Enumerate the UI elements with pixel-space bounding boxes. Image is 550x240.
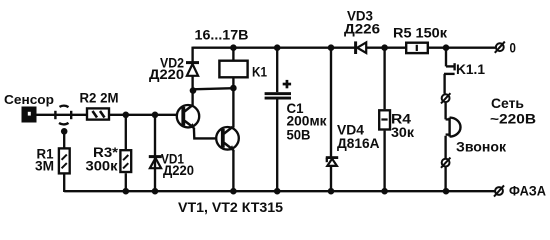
resistor R2 xyxy=(87,108,109,119)
node junction below shield xyxy=(61,128,68,135)
svg-text:R2 2M: R2 2M xyxy=(80,91,119,106)
diode VD2 xyxy=(186,63,199,76)
wire VT2 emitter down xyxy=(232,150,234,192)
wire to bell xyxy=(444,103,446,120)
wire R4 top xyxy=(383,48,385,109)
zener VD4 xyxy=(326,158,338,166)
wire VD4 lower xyxy=(330,166,332,192)
terminal 0 xyxy=(495,42,505,53)
svg-text:Д816А: Д816А xyxy=(337,136,380,151)
svg-text:Сенсор: Сенсор xyxy=(4,92,54,107)
junction C1 top xyxy=(274,44,281,51)
wire R2 to VT1 base xyxy=(110,114,176,116)
diode VD1 xyxy=(149,157,162,169)
capacitor C1 xyxy=(265,92,291,99)
svg-text:Звонок: Звонок xyxy=(456,140,506,155)
bottom rail xyxy=(64,190,495,192)
svg-text:50В: 50В xyxy=(287,128,311,143)
svg-text:ФАЗА: ФАЗА xyxy=(509,183,546,198)
svg-text:K1: K1 xyxy=(252,65,267,80)
svg-text:Д226: Д226 xyxy=(344,22,380,37)
wire R3 to bottom rail xyxy=(125,173,127,192)
wire VT1 emitter to VT2 base xyxy=(194,128,216,139)
resistor R4 xyxy=(379,110,390,129)
sensor plate E1 xyxy=(22,107,37,123)
svg-text:3М: 3М xyxy=(35,159,54,174)
resistor R3 xyxy=(120,150,131,172)
wire R4 bottom xyxy=(383,131,385,192)
resistor R5 xyxy=(406,43,428,53)
label + xyxy=(283,80,291,88)
junction R3 bottom xyxy=(123,188,130,195)
junction R4 bottom xyxy=(381,188,388,195)
bell (Звонок) xyxy=(446,118,461,137)
junction R4 top xyxy=(381,44,388,51)
svg-text:0: 0 xyxy=(510,39,517,55)
junction bell bottom xyxy=(443,188,450,195)
terminal circle upper xyxy=(441,93,450,103)
wire R1 to bottom rail xyxy=(63,174,65,192)
top rail xyxy=(193,47,496,49)
diode VD3 xyxy=(356,41,367,54)
svg-text:30к: 30к xyxy=(391,125,414,140)
wire VD4 branch upper xyxy=(330,48,332,157)
junction R3 top xyxy=(123,112,130,119)
junction VD1 bottom xyxy=(152,188,159,195)
terminal circle lower xyxy=(441,158,450,168)
junction K1 top xyxy=(230,44,237,51)
junction VD4 bottom xyxy=(328,188,335,195)
wire node to R1 xyxy=(63,131,65,148)
junction K1.1 top xyxy=(443,44,450,51)
svg-text:~220В: ~220В xyxy=(490,111,536,126)
svg-text:R5 150к: R5 150к xyxy=(393,25,447,40)
transistor VT2 xyxy=(216,127,239,151)
wire to R3 xyxy=(125,115,127,149)
junction C1 bottom xyxy=(274,188,281,195)
transistor VT1 xyxy=(177,105,199,129)
wire VD2 vertical (rail corner to node) xyxy=(191,47,193,63)
shield dashed circle xyxy=(55,106,71,125)
svg-text:Д220: Д220 xyxy=(163,163,194,178)
wire VT2 collector up xyxy=(232,88,234,127)
wire C1 bottom xyxy=(276,100,278,193)
wire VD1 branch xyxy=(154,115,156,192)
wire C1 top xyxy=(276,48,278,92)
resistor R1 xyxy=(59,148,70,173)
wire sensor to R2 xyxy=(37,114,87,116)
svg-text:200мк: 200мк xyxy=(287,114,327,129)
junction VT2 emitter bottom xyxy=(230,188,237,195)
junction node right xyxy=(230,85,237,92)
junction VD1 top xyxy=(152,112,159,119)
relay coil K1 xyxy=(219,48,247,88)
node line collectors xyxy=(193,88,234,89)
wire lower terminal to bottom rail xyxy=(444,167,446,192)
terminal ФАЗА xyxy=(494,185,504,196)
junction VD4 top xyxy=(328,44,335,51)
svg-text:16...17В: 16...17В xyxy=(195,28,249,43)
wire VT1 collector up xyxy=(191,89,193,105)
wire bell to lower terminal xyxy=(444,136,446,159)
svg-text:VT1, VT2 КТ315: VT1, VT2 КТ315 xyxy=(178,200,284,215)
svg-text:Д220: Д220 xyxy=(149,67,184,82)
junction node left xyxy=(190,87,197,94)
svg-text:300к: 300к xyxy=(86,159,118,174)
svg-text:K1.1: K1.1 xyxy=(456,62,486,77)
contact K1.1 xyxy=(444,48,455,94)
svg-text:Сеть: Сеть xyxy=(491,96,524,111)
